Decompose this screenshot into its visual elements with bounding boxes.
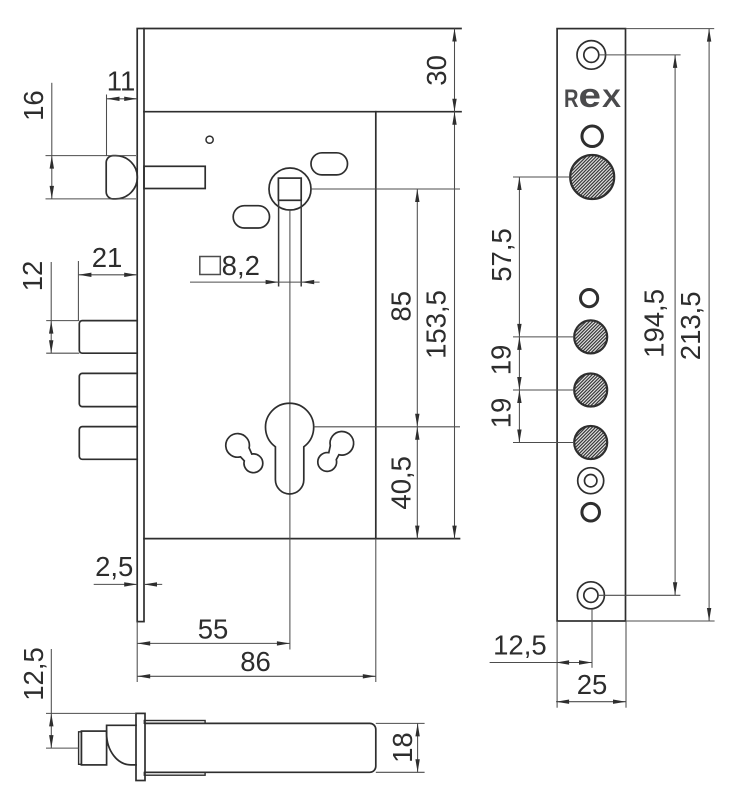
- dim 19 upper: [513, 336, 574, 338]
- svg-text:19: 19: [486, 398, 517, 429]
- dim 86: [375, 539, 377, 682]
- side view latch wedge: [107, 725, 136, 765]
- dim 16: [46, 155, 137, 157]
- svg-text:55: 55: [198, 614, 229, 645]
- dim 194,5: [674, 55, 676, 595]
- side view top tab: [144, 721, 205, 724]
- svg-text:85: 85: [385, 291, 416, 322]
- leader bottom screw: [598, 594, 680, 596]
- big hatched hole: [570, 155, 614, 199]
- svg-text:57,5: 57,5: [486, 228, 517, 282]
- dim 12,5 right: [556, 621, 558, 708]
- svg-text:86: 86: [240, 646, 271, 677]
- top screw hole: [577, 41, 606, 70]
- lock body top edge + extension: [144, 28, 461, 30]
- dim 12: [46, 320, 79, 322]
- side view bottom tab: [144, 772, 205, 775]
- svg-text:e: e: [579, 77, 602, 115]
- svg-text:18: 18: [387, 732, 418, 763]
- concentric hole: [578, 468, 604, 494]
- oval slot upper right: [311, 153, 348, 175]
- dim 12,5 side: [46, 712, 136, 714]
- svg-text:213,5: 213,5: [675, 291, 706, 360]
- dim 213,5: [626, 28, 715, 30]
- lock body inner top line + extension: [144, 111, 461, 113]
- deadbolt 2: [79, 373, 137, 406]
- dim 85: [311, 188, 460, 190]
- oval slot left: [233, 206, 269, 228]
- svg-text:25: 25: [577, 669, 608, 700]
- dim 8,2 line: [190, 281, 320, 283]
- svg-text:R: R: [564, 85, 579, 113]
- lock body right edge: [375, 112, 377, 539]
- bottom screw hole: [577, 582, 604, 609]
- spindle boss circle: [269, 168, 311, 210]
- svg-text:40,5: 40,5: [385, 456, 416, 510]
- side view lock case: [145, 723, 376, 772]
- svg-text:30: 30: [421, 55, 452, 86]
- handle hole ring: [582, 126, 603, 147]
- deadbolt 1: [79, 321, 137, 354]
- dim 55: [136, 622, 138, 682]
- faceplate outline (front): [557, 29, 625, 621]
- svg-text:19: 19: [486, 345, 517, 376]
- left fixing dumbbell hole: [226, 434, 263, 473]
- svg-text:X: X: [602, 85, 621, 113]
- side view bolt cap: [79, 732, 82, 765]
- svg-text:8,2: 8,2: [222, 250, 260, 281]
- REX logo: [564, 77, 621, 115]
- square hole extension lines: [278, 200, 280, 286]
- svg-text:16: 16: [18, 90, 49, 121]
- svg-text:153,5: 153,5: [421, 290, 452, 359]
- svg-text:2,5: 2,5: [95, 551, 133, 582]
- dim 153,5: [454, 112, 456, 539]
- hatched bolt hole 1: [574, 320, 607, 353]
- pin hole: [206, 136, 213, 143]
- dim 30: [454, 29, 456, 112]
- svg-text:12: 12: [17, 261, 48, 292]
- side view bolt: [81, 731, 106, 765]
- hatched bolt hole 2: [574, 374, 607, 407]
- dim 18: [376, 722, 425, 724]
- dim 8,2 square symbol: [200, 257, 221, 275]
- side view faceplate: [136, 713, 145, 780]
- leader top screw: [599, 54, 681, 56]
- dim 19 lower: [513, 389, 574, 391]
- euro cylinder hole: [265, 403, 313, 494]
- ring hole lower: [582, 503, 600, 521]
- dim 25: [625, 621, 627, 708]
- dim 21: [77, 261, 79, 321]
- svg-text:12,5: 12,5: [18, 647, 49, 701]
- latch bolt head: [106, 156, 137, 199]
- hatched bolt hole 3: [574, 426, 607, 459]
- svg-text:21: 21: [92, 242, 123, 273]
- dim 2,5: [94, 583, 138, 585]
- deadbolt 3: [79, 427, 137, 460]
- svg-text:12,5: 12,5: [493, 630, 547, 661]
- dim 11: [106, 95, 108, 157]
- right fixing dumbbell hole: [318, 431, 354, 471]
- latch tail rectangle: [144, 166, 205, 188]
- spindle square hole 8.2: [278, 178, 301, 200]
- svg-text:11: 11: [107, 66, 136, 97]
- lock body bottom edge + extension: [144, 538, 460, 540]
- dim 57,5: [513, 176, 570, 178]
- faceplate strip (front view): [137, 29, 144, 622]
- svg-text:194,5: 194,5: [638, 289, 669, 358]
- small ring hole: [581, 290, 598, 307]
- dim 40,5: [314, 426, 460, 428]
- center line spindle to cylinder: [289, 210, 291, 650]
